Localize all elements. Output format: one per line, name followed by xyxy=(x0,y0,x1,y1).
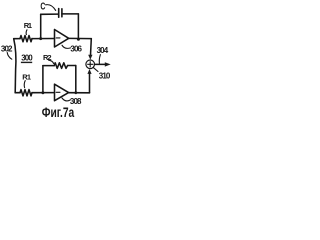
arrowhead into summer top xyxy=(88,55,92,60)
wire: capacitor top right horizontal xyxy=(62,13,79,15)
wire: R2 top right horizontal xyxy=(68,65,76,67)
wire: capacitor left vertical leg xyxy=(40,14,42,38)
plus sign xyxy=(88,62,93,67)
op-amp U306 triangle xyxy=(55,30,69,48)
capacitor C plates xyxy=(58,9,60,18)
wire: R1 to op-amp 308 input xyxy=(32,92,55,94)
wire: top branch horizontal into R1 xyxy=(14,38,20,40)
node: junction dot R2 left leg xyxy=(41,91,44,94)
op-amp 306 minus sign xyxy=(56,37,60,39)
svg-text:304: 304 xyxy=(97,46,109,55)
resistor R1 (bottom) xyxy=(20,90,32,96)
svg-text:302: 302 xyxy=(1,44,13,53)
wire: capacitor top left horizontal xyxy=(41,13,59,15)
wire: R1 to op-amp 306 input xyxy=(32,38,55,40)
arrowhead output 304 xyxy=(105,62,111,66)
svg-text:300: 300 xyxy=(21,53,33,62)
wire: op-amp 308 output xyxy=(69,92,90,94)
leader for 310 xyxy=(93,67,98,71)
wire: op-amp 306 output xyxy=(69,37,92,39)
leader for 302 xyxy=(7,53,12,60)
leader for R1 top xyxy=(25,30,28,35)
node: junction dot R2 right leg xyxy=(74,91,77,94)
wire: down to summer xyxy=(90,39,93,56)
resistor R1 (top) xyxy=(20,36,32,42)
wire: summer output xyxy=(95,63,106,65)
resistor R2 zigzag xyxy=(54,63,67,69)
leader for C label xyxy=(46,5,56,11)
op-amp 308 minus sign xyxy=(56,91,60,93)
svg-text:R1: R1 xyxy=(24,21,32,30)
svg-text:306: 306 xyxy=(70,44,82,53)
wire: R2 right vertical leg xyxy=(75,66,77,93)
leader for R1 bottom xyxy=(23,81,26,88)
leader for 304 xyxy=(99,55,100,64)
underline of 300 xyxy=(21,62,32,63)
wire: capacitor right vertical leg xyxy=(77,14,79,39)
wire: bottom branch horizontal into R1 xyxy=(15,92,20,94)
leader for R2 xyxy=(49,60,54,63)
node: junction dot at cap right leg on output wire xyxy=(77,38,80,41)
leader for 308 xyxy=(62,98,70,101)
arrowhead into summer bottom xyxy=(87,69,91,74)
svg-text:C: C xyxy=(40,0,45,12)
wire: up into summer from 308 xyxy=(89,74,91,93)
summing junction 310 circle xyxy=(86,60,95,69)
wire: R2 left vertical leg xyxy=(42,66,44,93)
wire: left input vertical (node 300 bus) xyxy=(14,39,16,93)
svg-text:310: 310 xyxy=(99,72,111,81)
node: junction dot at cap left leg xyxy=(39,37,42,40)
wire: R2 top left horizontal xyxy=(43,65,54,67)
op-amp U308 triangle xyxy=(55,84,69,101)
svg-text:Фиг.7а: Фиг.7а xyxy=(42,105,75,120)
leader for 306 xyxy=(62,45,71,48)
svg-text:R2: R2 xyxy=(43,53,51,62)
svg-text:R1: R1 xyxy=(22,73,31,82)
